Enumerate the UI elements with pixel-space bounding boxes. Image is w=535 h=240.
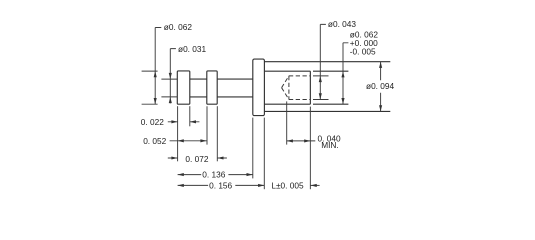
arrowheads dia 0.043 [319, 76, 322, 82]
svg-text:0. 022: 0. 022 [141, 117, 164, 127]
dim row 0.052 line [170, 140, 207, 142]
svg-text:ø0. 043: ø0. 043 [328, 19, 357, 29]
dim line dia 0.043 [320, 24, 326, 99]
bottom extension line at datum 177.6 [177, 106, 179, 161]
body inner bore bottom edge [264, 103, 348, 105]
svg-text:L±0. 005: L±0. 005 [271, 180, 304, 190]
drill point cone lower arm [282, 88, 289, 100]
body outer top edge / extension [264, 61, 390, 63]
arrowheads row 0.040 [287, 139, 293, 142]
svg-text:ø0. 031: ø0. 031 [178, 44, 207, 54]
dim row 0.040 line [287, 140, 316, 142]
body inner bore top edge [264, 70, 348, 72]
bottom extension line 310.35 [309, 107, 311, 190]
arrowheads dia 0.062 right [341, 71, 344, 77]
dim row 0.136 lines [178, 174, 253, 176]
arrowheads row 0.136 [178, 173, 184, 176]
wire shaft segment between F2 and mounting flange [217, 79, 253, 97]
arrowheads dia 0.031 (outside) [169, 73, 172, 79]
svg-text:MIN.: MIN. [321, 140, 339, 150]
wire shaft segment between F1 and F2 [190, 79, 207, 97]
bottom extension line 264.3 [263, 118, 265, 190]
extension segs for dia 0.031 [161, 79, 177, 97]
bottom extension line 286.7 [286, 101, 288, 144]
arrowheads row 0.052 [178, 139, 184, 142]
extension segs for dia 0.062 left [142, 71, 158, 104]
dim line dia 0.062 left [155, 28, 161, 105]
dim row L lines [311, 184, 320, 186]
dim line dia 0.031 [170, 49, 176, 104]
arrowheads row 0.156 [178, 184, 184, 187]
hidden hole bottom line [289, 99, 310, 101]
svg-text:0. 072: 0. 072 [185, 154, 208, 164]
hidden hole base vertical [288, 76, 290, 100]
svg-text:ø0. 062: ø0. 062 [164, 22, 193, 32]
arrowheads row 0.022 [171, 120, 177, 123]
mounting flange (large collar) [253, 59, 265, 116]
bottom extension line 252.8 [252, 118, 254, 179]
bottom extension line 207 [206, 106, 208, 144]
hidden hole top line [289, 75, 310, 77]
svg-text:0. 156: 0. 156 [209, 180, 232, 190]
arrowheads dia 0.062 left [154, 71, 157, 77]
bottom extension line 189.8 [189, 106, 191, 126]
dim row 0.156 lines [178, 184, 265, 186]
arrowheads row 0.072 [171, 156, 177, 159]
svg-text:0. 052: 0. 052 [143, 136, 166, 146]
flange F2 (second press ring) [207, 71, 217, 104]
dim row 0.072 lines [168, 157, 227, 159]
dim line dia 0.062 right [343, 43, 348, 104]
drill point cone upper arm [282, 76, 289, 88]
bottom extension line 217.3 [216, 106, 218, 161]
svg-text:ø0. 094: ø0. 094 [366, 81, 395, 91]
dim line dia 0.094 [380, 62, 382, 112]
arrowhead row L (outside right) [311, 184, 317, 187]
body outer bottom edge / extension [264, 110, 390, 112]
svg-text:-0. 005: -0. 005 [350, 47, 376, 57]
svg-text:0. 136: 0. 136 [202, 170, 225, 180]
arrowheads dia 0.094 [379, 62, 382, 68]
body end face [309, 71, 311, 104]
dim row 0.022 lines [168, 121, 200, 123]
extension segs for dia 0.043 [313, 76, 329, 100]
flange F1 (first press ring) [177, 71, 190, 104]
